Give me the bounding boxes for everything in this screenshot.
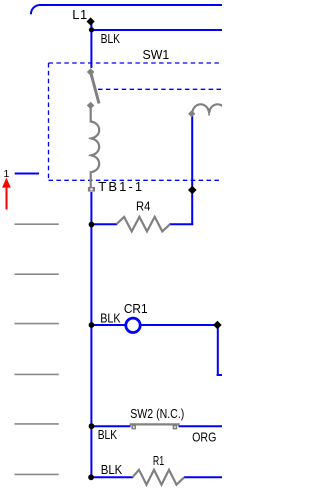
svg-text:SW2 (N.C.): SW2 (N.C.) <box>130 406 184 421</box>
svg-text:R1: R1 <box>153 454 164 468</box>
svg-text:BLK: BLK <box>98 428 118 442</box>
svg-text:BLK: BLK <box>101 462 123 477</box>
svg-text:L1: L1 <box>72 7 88 22</box>
svg-text:ORG: ORG <box>192 429 216 444</box>
svg-text:BLK: BLK <box>100 311 120 326</box>
svg-text:R4: R4 <box>136 199 151 214</box>
svg-text:SW1: SW1 <box>143 48 170 62</box>
svg-text:CR1: CR1 <box>124 302 148 317</box>
svg-text:BLK: BLK <box>101 32 121 46</box>
svg-text:TB1-1: TB1-1 <box>98 179 144 194</box>
svg-text:1: 1 <box>4 168 10 180</box>
